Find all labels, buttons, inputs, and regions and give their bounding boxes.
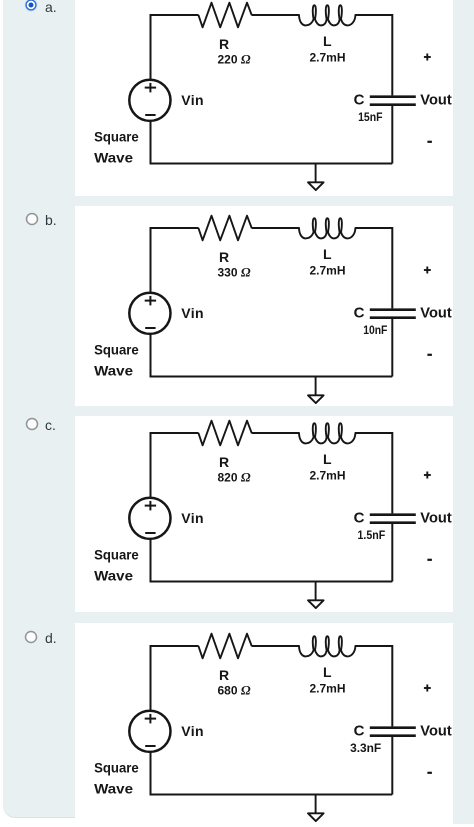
resistor R (820 ohm) zigzag — [198, 421, 251, 446]
wire: source bottom to bottom rail — [150, 121, 152, 165]
ground symbol — [308, 164, 324, 191]
source plus sign — [145, 83, 156, 93]
wire: inductor to top-right corner down to capacitor — [355, 646, 392, 726]
wire: inductor to top-right corner down to capacitor — [355, 228, 392, 308]
output plus polarity mark — [424, 54, 431, 61]
output minus polarity mark — [427, 559, 432, 561]
inductor L (2.7mH) coil — [299, 636, 355, 656]
svg-text:Vout: Vout — [420, 304, 451, 321]
label Vout — [420, 92, 451, 109]
radio button option a (selected) — [23, 0, 39, 13]
label Square Wave — [94, 760, 139, 797]
wire: top-left node to resistor — [151, 228, 199, 293]
output plus polarity mark — [424, 685, 431, 692]
capacitor C (10nF) plates — [370, 309, 416, 317]
svg-text:Square: Square — [94, 760, 139, 776]
resistor R (220 ohm) zigzag — [198, 3, 251, 28]
wire: resistor to inductor — [252, 14, 300, 16]
label Vout — [420, 723, 451, 740]
svg-text:C: C — [354, 92, 365, 109]
voltage source Vin (square wave) circle — [129, 292, 170, 333]
inductor L (2.7mH) coil — [299, 423, 355, 443]
label C — [354, 304, 365, 321]
svg-text:R: R — [219, 249, 229, 265]
label Square Wave — [94, 129, 139, 166]
svg-text:R: R — [219, 454, 229, 470]
source minus sign — [145, 114, 155, 116]
wire: resistor to inductor — [252, 227, 300, 229]
resistor R (680 ohm) zigzag — [198, 634, 251, 659]
svg-text:C: C — [354, 304, 365, 321]
wire: inductor to top-right corner down to capacitor — [355, 15, 392, 95]
option letter label c. — [45, 418, 56, 432]
wire: source bottom to bottom rail — [150, 334, 152, 378]
source minus sign — [145, 745, 155, 747]
svg-text:Vout: Vout — [420, 510, 451, 527]
output plus polarity mark — [424, 266, 431, 273]
wire: resistor to inductor — [252, 432, 300, 434]
svg-text:Vin: Vin — [181, 304, 203, 320]
value label 330 ohm — [217, 264, 250, 279]
svg-text:Wave: Wave — [94, 567, 133, 583]
value label 2.7mH — [309, 681, 345, 695]
right pale strip — [453, 0, 474, 824]
svg-text:L: L — [323, 451, 332, 467]
output plus polarity mark — [424, 472, 431, 479]
wire: top-left node to resistor — [151, 15, 199, 80]
ground symbol — [308, 582, 324, 609]
svg-text:330 Ω: 330 Ω — [217, 264, 250, 279]
value label 820 ohm — [217, 469, 250, 484]
white circuit card option b — [75, 206, 453, 406]
inductor L (2.7mH) coil — [299, 5, 355, 25]
option letter label a. — [45, 0, 57, 14]
svg-text:L: L — [323, 664, 332, 680]
svg-text:220 Ω: 220 Ω — [217, 51, 250, 66]
svg-text:Vin: Vin — [181, 92, 203, 108]
voltage source Vin (square wave) circle — [129, 711, 170, 752]
source minus sign — [145, 532, 155, 534]
value label 2.7mH — [309, 468, 345, 482]
value label 1.5nF — [358, 528, 386, 542]
svg-text:L: L — [323, 33, 332, 49]
label C — [354, 510, 365, 527]
wire: capacitor to bottom rail — [391, 106, 393, 164]
svg-text:680 Ω: 680 Ω — [217, 682, 250, 697]
svg-text:3.3nF: 3.3nF — [350, 741, 381, 755]
svg-text:Vout: Vout — [420, 92, 451, 109]
label R — [219, 454, 229, 470]
voltage source Vin (square wave) circle — [129, 498, 170, 539]
svg-text:C: C — [354, 510, 365, 527]
value label 2.7mH — [309, 263, 345, 277]
wire: capacitor to bottom rail — [391, 737, 393, 795]
capacitor C (1.5nF) plates — [370, 515, 416, 523]
label Square Wave — [94, 341, 139, 378]
svg-text:R: R — [219, 36, 229, 52]
ground symbol — [308, 376, 324, 403]
label Vin — [181, 92, 203, 108]
svg-text:Vout: Vout — [420, 723, 451, 740]
circuit schematic option a — [75, 0, 453, 196]
source plus sign — [145, 714, 156, 724]
label R — [219, 667, 229, 683]
svg-text:Vin: Vin — [181, 510, 203, 526]
svg-text:2.7mH: 2.7mH — [309, 263, 345, 277]
capacitor C (15nF) plates — [370, 97, 416, 105]
wire: source bottom to bottom rail — [150, 752, 152, 796]
wire: bottom rail — [151, 794, 393, 796]
value label 3.3nF — [350, 741, 381, 755]
svg-text:Wave: Wave — [94, 149, 133, 165]
radio button option b (unselected) — [24, 211, 40, 227]
svg-text:L: L — [323, 246, 332, 262]
source plus sign — [145, 501, 156, 511]
option letter label d. — [45, 631, 57, 645]
radio button option c (unselected) — [24, 416, 40, 432]
circuit schematic option b — [75, 213, 453, 409]
label Vout — [420, 510, 451, 527]
svg-text:R: R — [219, 667, 229, 683]
circuit schematic option c — [75, 418, 453, 614]
output minus polarity mark — [427, 353, 432, 355]
wire: inductor to top-right corner down to capacitor — [355, 433, 392, 513]
label R — [219, 36, 229, 52]
svg-text:1.5nF: 1.5nF — [358, 528, 386, 542]
circuit schematic option d — [75, 631, 453, 827]
value label 10nF — [363, 323, 387, 337]
white circuit card option a — [75, 0, 453, 196]
white circuit card option d — [75, 623, 453, 824]
wire: top-left node to resistor — [151, 646, 199, 711]
source minus sign — [145, 327, 155, 329]
svg-text:820 Ω: 820 Ω — [217, 469, 250, 484]
value label 2.7mH — [309, 50, 345, 64]
output minus polarity mark — [427, 772, 432, 774]
wire: bottom rail — [151, 163, 393, 165]
value label 680 ohm — [217, 682, 250, 697]
label R — [219, 249, 229, 265]
svg-text:Square: Square — [94, 129, 139, 145]
white circuit card option c — [75, 416, 453, 612]
label Vin — [181, 510, 203, 526]
svg-text:10nF: 10nF — [363, 323, 387, 337]
wire: bottom rail — [151, 375, 393, 377]
svg-text:Square: Square — [94, 341, 139, 357]
capacitor C (3.3nF) plates — [370, 728, 416, 736]
svg-text:C: C — [354, 723, 365, 740]
svg-text:2.7mH: 2.7mH — [309, 468, 345, 482]
svg-text:Vin: Vin — [181, 723, 203, 739]
svg-text:Wave: Wave — [94, 780, 133, 796]
label C — [354, 723, 365, 740]
value label 15nF — [358, 110, 383, 124]
svg-text:2.7mH: 2.7mH — [309, 681, 345, 695]
output minus polarity mark — [427, 141, 432, 143]
option letter label b. — [45, 213, 57, 227]
svg-text:15nF: 15nF — [358, 110, 383, 124]
wire: capacitor to bottom rail — [391, 319, 393, 377]
wire: top-left node to resistor — [151, 433, 199, 498]
svg-text:Square: Square — [94, 547, 139, 563]
label L — [323, 33, 332, 49]
svg-text:Wave: Wave — [94, 362, 133, 378]
radio button option d (unselected) — [23, 629, 39, 645]
svg-text:2.7mH: 2.7mH — [309, 50, 345, 64]
label Vin — [181, 304, 203, 320]
ground symbol — [308, 795, 324, 822]
label L — [323, 451, 332, 467]
wire: resistor to inductor — [252, 645, 300, 647]
voltage source Vin (square wave) circle — [129, 80, 170, 121]
wire: capacitor to bottom rail — [391, 524, 393, 582]
label L — [323, 664, 332, 680]
source plus sign — [145, 295, 156, 305]
inductor L (2.7mH) coil — [299, 218, 355, 238]
label Square Wave — [94, 547, 139, 584]
label Vin — [181, 723, 203, 739]
label C — [354, 92, 365, 109]
wire: source bottom to bottom rail — [150, 539, 152, 583]
value label 220 ohm — [217, 51, 250, 66]
label L — [323, 246, 332, 262]
resistor R (330 ohm) zigzag — [198, 215, 251, 240]
label Vout — [420, 304, 451, 321]
wire: bottom rail — [151, 581, 393, 583]
